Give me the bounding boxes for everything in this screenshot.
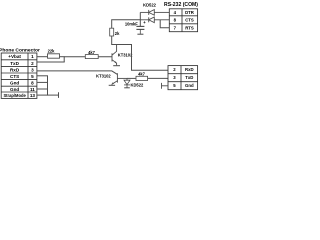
resistor R3 2k — [110, 28, 120, 36]
wire R1 out — [60, 56, 65, 58]
ground VD3 — [124, 87, 130, 89]
svg-text:10mkF: 10mkF — [125, 21, 138, 26]
ground C1 — [137, 33, 143, 35]
resistor R2 4k7 — [85, 50, 98, 59]
svg-text:DTR: DTR — [185, 10, 195, 15]
diode VD2 KD522 — [140, 17, 169, 23]
wire junction diodes to capacitor — [139, 12, 141, 26]
svg-text:KT3102: KT3102 — [118, 52, 133, 57]
resistor R4 4k7 — [136, 72, 148, 81]
ground Q1 emitter — [113, 65, 120, 67]
connector X3 RS-232 bottom pin table — [168, 66, 198, 90]
wire R3 bottom to Q1 collector to COM RxD pin2 — [112, 36, 168, 70]
pin number labels RS-232 bottom 2 3 5 — [173, 67, 176, 88]
svg-text:KT3102: KT3102 — [96, 74, 111, 79]
svg-text:Gnd: Gnd — [10, 81, 19, 86]
svg-text:22k: 22k — [48, 49, 56, 54]
wire node A to R2 to Q1 base — [64, 56, 112, 58]
wire TxD pin2 — [37, 61, 65, 63]
pin name labels DTR CTS RTS — [185, 10, 195, 30]
capacitor C1 10mkF — [125, 20, 146, 34]
wire COM Gnd pin5 stub — [162, 83, 169, 89]
svg-text:2: 2 — [31, 61, 34, 66]
connector X2 RS-232 top pin table — [169, 9, 197, 32]
svg-text:CTS: CTS — [10, 74, 19, 79]
connector X1 phone pin table — [1, 53, 37, 98]
svg-text:Phone Connector: Phone Connector — [0, 47, 40, 53]
svg-text:TxD: TxD — [185, 75, 193, 80]
svg-text:11: 11 — [30, 87, 35, 92]
svg-text:RTS: RTS — [185, 25, 194, 30]
svg-text:KD522: KD522 — [131, 82, 144, 87]
svg-text:CTS: CTS — [185, 17, 194, 22]
svg-text:13: 13 — [30, 93, 36, 98]
svg-text:+Vbat: +Vbat — [8, 54, 21, 59]
wire R3 top to supply node — [112, 20, 141, 28]
wire Q2 base node to R4 — [127, 77, 136, 79]
wire +Vbat pin1 to R1 — [37, 56, 48, 58]
svg-text:RxD: RxD — [10, 67, 20, 72]
pin number labels RS-232 top 4 8 7 — [174, 10, 177, 30]
wire phone RxD pin3 to Q2 collector — [37, 71, 118, 75]
svg-text:4k7: 4k7 — [138, 72, 146, 77]
svg-text:Gnd: Gnd — [185, 83, 194, 88]
pin number labels phone connector 1 2 3 5 8 11 13 — [30, 54, 36, 98]
svg-text:5: 5 — [31, 74, 34, 79]
resistor R1 22k — [48, 49, 60, 59]
transistor Q1 KT3102 — [112, 45, 133, 66]
svg-text:RS-232 (COM): RS-232 (COM) — [164, 2, 198, 8]
wire R4 to COM TxD pin3 — [148, 77, 168, 79]
diode VD1 KD522 — [140, 10, 169, 16]
svg-text:Gnd: Gnd — [10, 87, 19, 92]
svg-text:KD522: KD522 — [143, 3, 156, 8]
svg-text:1: 1 — [31, 54, 34, 59]
transistor Q2 KT3102 — [96, 73, 127, 85]
svg-text:2k: 2k — [115, 31, 120, 36]
pin name labels phone connector — [3, 54, 26, 98]
junction node A pullup to TxD — [63, 57, 65, 62]
svg-text:RxD: RxD — [185, 67, 194, 72]
ground Q2 emitter — [109, 84, 115, 86]
diode VD3 KD522 — [124, 78, 144, 87]
svg-text:8: 8 — [31, 81, 34, 86]
wire ground bus CTS Gnd Gnd Strap pins — [37, 76, 59, 98]
svg-text:3: 3 — [31, 67, 34, 72]
pin name labels RxD TxD Gnd — [185, 67, 194, 88]
svg-text:TxD: TxD — [10, 61, 19, 66]
wire RTS pin7 loop to CTS line — [160, 20, 169, 28]
svg-text:Strap/Mode: Strap/Mode — [3, 93, 26, 98]
svg-text:4k7: 4k7 — [88, 50, 96, 55]
